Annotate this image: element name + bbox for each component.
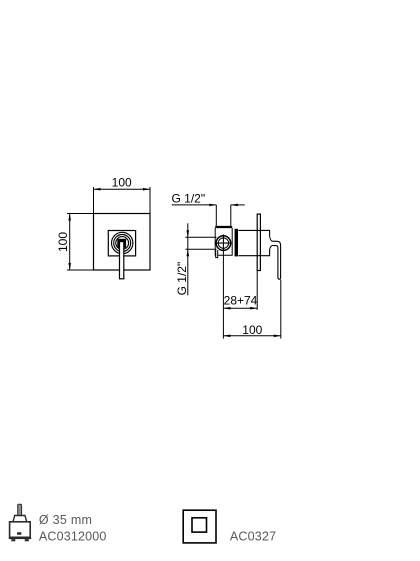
dimension 28+74: right extension line (plate face down): [256, 271, 258, 310]
valve body top flange: [215, 226, 232, 228]
inlet pipe top left wall: [215, 205, 217, 227]
dimension G 1/2 top: left arrowhead: [209, 204, 216, 207]
square plate icon outer: [183, 510, 216, 543]
cartridge cross horizontal: [215, 242, 232, 244]
lever bar (front): [120, 242, 124, 279]
svg-text:Ø 35 mm: Ø 35 mm: [39, 513, 92, 527]
handle rosette circle inner: [116, 237, 129, 250]
dimension G 1/2 left: lower arrowhead: [187, 249, 190, 256]
lever pivot square: [119, 240, 125, 247]
dimension G 1/2 top: right leader line: [231, 204, 245, 206]
dimension 28+74: left arrowhead: [223, 307, 230, 310]
wall plate square: [94, 214, 151, 271]
svg-text:100: 100: [56, 232, 70, 252]
dimension G 1/2 left: dimension line: [187, 223, 189, 295]
dimension 100 bottom: right arrowhead: [274, 335, 281, 338]
valve body block: [215, 228, 232, 255]
dimension 100 left: dimension line: [69, 214, 71, 271]
dimension 28+74: left extension line (from cartridge centre down): [222, 252, 224, 339]
dimension G 1/2 left: upper arrowhead: [187, 230, 190, 237]
mounting flange bar (solid): [235, 229, 238, 257]
dimension 100 bottom: right extension line (lever edge down): [280, 280, 282, 339]
dimension G 1/2 top: left leader line: [172, 204, 217, 206]
cartridge icon: right foot: [25, 539, 29, 541]
dimension G 1/2 top: right arrowhead: [231, 204, 238, 207]
dimension 100 bottom: left arrowhead: [223, 335, 230, 338]
square plate icon inner: [192, 518, 207, 532]
cartridge icon: body: [10, 522, 31, 538]
dimension 100 bottom: dimension line: [223, 335, 280, 337]
cartridge icon: stem: [18, 504, 22, 515]
dimension 100 left: bottom arrowhead: [68, 263, 71, 270]
escutcheon square: [108, 231, 135, 256]
dimension 100 left: extension line bottom: [67, 269, 94, 271]
svg-text:G 1/2": G 1/2": [172, 191, 206, 205]
cartridge circle outer: [216, 236, 231, 251]
valve body bottom stub: [216, 250, 218, 258]
cartridge icon: collar: [13, 516, 27, 522]
dimension 100 left: extension line top: [67, 213, 94, 215]
svg-text:100: 100: [112, 176, 132, 190]
dimension 100 top: extension line right: [149, 187, 151, 214]
dimension 100 top: dimension line: [94, 188, 151, 190]
inlet pipe top right wall: [230, 205, 232, 227]
svg-text:AC0327: AC0327: [230, 530, 276, 544]
svg-text:100: 100: [242, 323, 262, 337]
handle rosette circle middle: [114, 235, 131, 252]
handle lever (side): [272, 241, 281, 279]
dimension 100 top: right arrowhead: [143, 188, 150, 191]
cartridge circle inner: [218, 238, 228, 248]
svg-text:AC0312000: AC0312000: [39, 530, 107, 544]
dimension G 1/2 left: extension line top: [185, 236, 216, 238]
wall plate edge-on: [257, 214, 260, 270]
dimension 28+74: dimension line: [223, 307, 257, 309]
dimension 28+74: right arrowhead: [250, 307, 257, 310]
cartridge cross vertical: [222, 235, 224, 252]
dimension G 1/2 left: extension line bottom: [185, 248, 216, 250]
handle rosette circle outer: [112, 232, 133, 253]
dimension 100 top: left arrowhead: [94, 188, 101, 191]
cartridge icon: base bar: [9, 537, 31, 539]
hub end dome: [270, 236, 273, 250]
cartridge icon: slot: [17, 532, 21, 535]
svg-text:28+74: 28+74: [224, 294, 258, 308]
dimension 100 left: top arrowhead: [68, 214, 71, 221]
dimension 100 top: extension line left: [93, 187, 95, 214]
cartridge icon: left foot: [11, 539, 15, 541]
svg-text:G 1/2": G 1/2": [175, 262, 189, 296]
hub cylinder through plate: [238, 230, 269, 255]
